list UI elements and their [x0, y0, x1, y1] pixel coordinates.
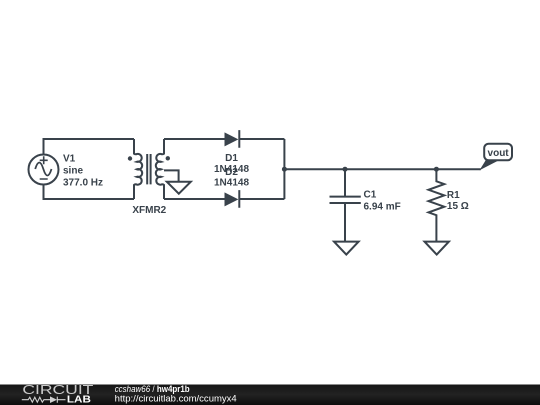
svg-text:D2: D2 [225, 167, 238, 178]
svg-text:XFMR2: XFMR2 [132, 205, 166, 216]
svg-text:6.94 mF: 6.94 mF [364, 201, 401, 212]
svg-text:sine: sine [63, 165, 83, 176]
svg-text:LAB: LAB [67, 394, 91, 405]
svg-text:C1: C1 [364, 190, 377, 201]
svg-text:V1: V1 [63, 154, 76, 165]
svg-text:D1: D1 [225, 153, 238, 164]
svg-text:http://circuitlab.com/ccumyx4: http://circuitlab.com/ccumyx4 [115, 393, 237, 403]
svg-text:1N4148: 1N4148 [214, 178, 249, 189]
svg-text:R1: R1 [447, 190, 460, 201]
svg-text:377.0 Hz: 377.0 Hz [63, 177, 103, 188]
svg-text:15 Ω: 15 Ω [447, 201, 469, 212]
svg-text:vout: vout [488, 148, 510, 159]
